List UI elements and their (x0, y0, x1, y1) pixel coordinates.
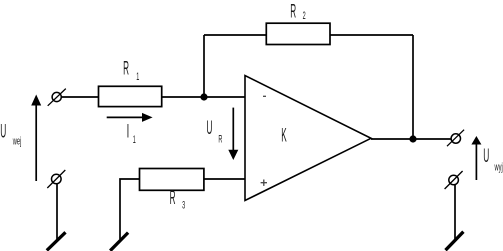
svg-text:wyj: wyj (494, 160, 503, 173)
svg-text:K: K (281, 126, 287, 147)
svg-text:U: U (206, 118, 212, 139)
svg-text:1: 1 (136, 70, 139, 83)
svg-text:2: 2 (303, 9, 306, 22)
svg-text:R: R (170, 189, 176, 210)
svg-text:U: U (0, 122, 6, 143)
svg-text:U: U (483, 146, 489, 167)
svg-text:3: 3 (182, 198, 185, 211)
svg-text:R: R (290, 2, 296, 23)
svg-text:wej: wej (12, 134, 21, 147)
svg-text:R: R (218, 132, 222, 145)
svg-text:1: 1 (133, 133, 136, 146)
svg-text:I: I (127, 121, 130, 143)
svg-text:R: R (123, 59, 129, 80)
